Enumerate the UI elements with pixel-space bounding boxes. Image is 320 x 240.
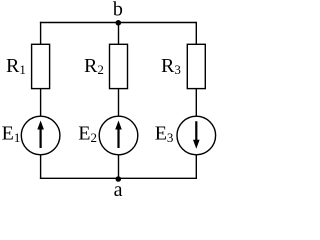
svg-text:R3: R3 xyxy=(161,55,181,77)
resistor R1 xyxy=(32,44,50,88)
resistor R2 xyxy=(110,44,128,88)
voltage source E1 circle xyxy=(21,116,60,155)
svg-text:a: a xyxy=(114,179,123,199)
resistor R3 xyxy=(187,44,205,88)
E3 arrow (down) xyxy=(193,121,200,149)
svg-text:E3: E3 xyxy=(155,122,174,145)
wire branch1 lower segment xyxy=(40,155,42,179)
wire branch2 middle segment xyxy=(118,89,120,117)
node a junction dot xyxy=(116,176,122,182)
svg-text:b: b xyxy=(113,0,123,20)
voltage source E3 circle xyxy=(177,116,216,155)
wire branch3 upper segment xyxy=(195,22,197,45)
svg-text:R1: R1 xyxy=(6,55,26,77)
E1 arrow (up) xyxy=(37,121,44,149)
node b junction dot xyxy=(116,20,122,26)
voltage source E2 circle xyxy=(99,116,138,155)
wire bottom bus (node a rail) xyxy=(40,177,196,179)
svg-text:E2: E2 xyxy=(78,122,97,145)
wire branch2 upper segment xyxy=(118,23,120,45)
wire branch2 lower segment xyxy=(118,155,120,179)
wire branch1 upper segment xyxy=(40,22,42,45)
wire branch3 middle segment xyxy=(195,89,197,117)
svg-text:E1: E1 xyxy=(2,122,21,145)
wire branch3 lower segment xyxy=(195,155,197,179)
svg-text:R2: R2 xyxy=(84,55,104,77)
E2 arrow (up) xyxy=(115,121,122,149)
wire branch1 middle segment xyxy=(40,89,42,117)
wire top bus (node b rail) xyxy=(40,22,196,24)
